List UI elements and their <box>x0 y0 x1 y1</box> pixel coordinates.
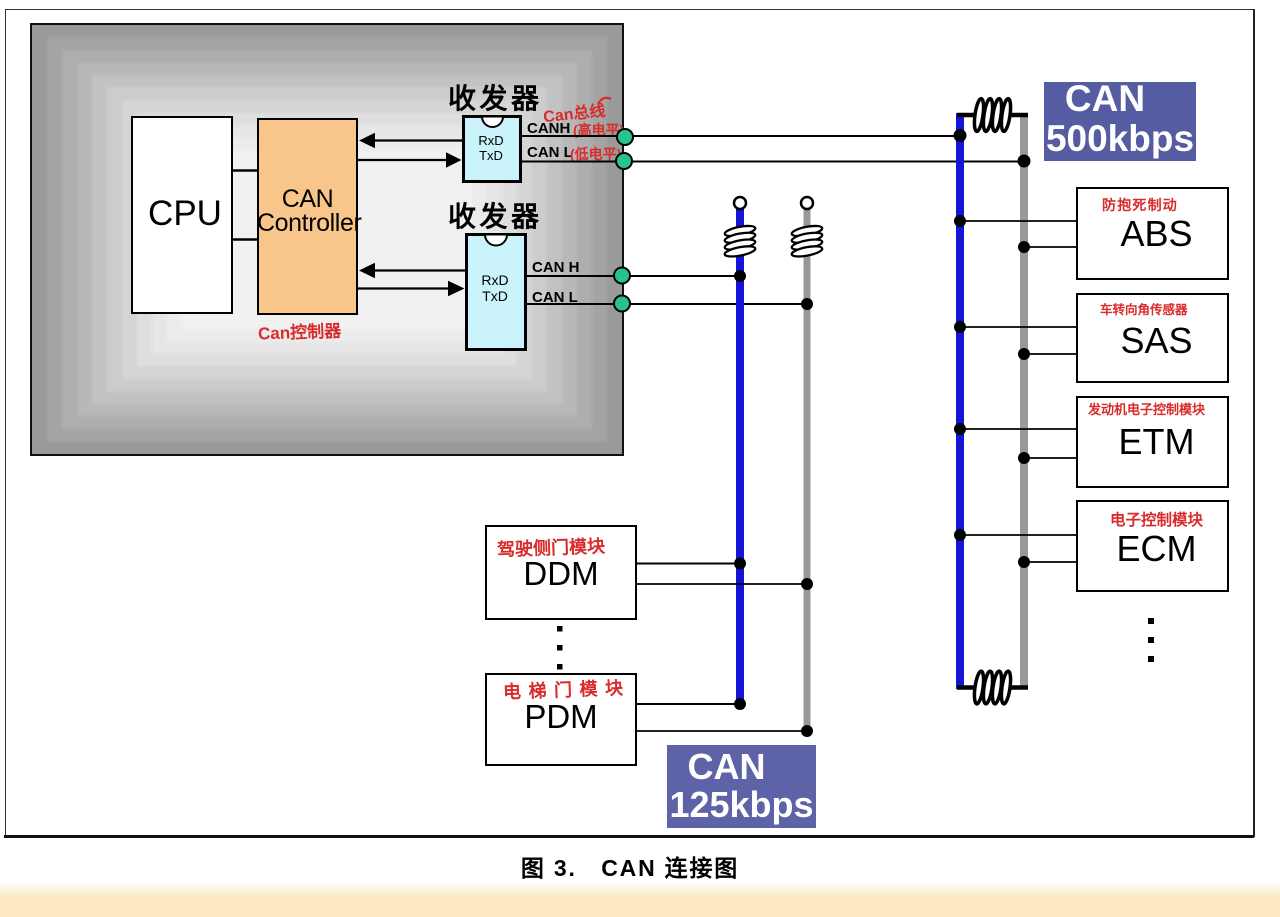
junction ABS-L <box>1018 241 1030 253</box>
terminal circle blue 125k <box>734 197 746 209</box>
label 电梯门模块 red <box>503 674 631 704</box>
resistor coil on gray 125k <box>791 224 823 259</box>
label Can控制器 (red) <box>258 317 342 345</box>
node CAN H stub U2 (green) <box>614 268 630 284</box>
node CAN L stub U2 (green) <box>614 296 630 312</box>
wire CAN H U2 to 125k bus <box>527 275 738 277</box>
resistor coil bottom 500k <box>973 671 1013 705</box>
junction SAS-H <box>954 321 966 333</box>
bus 500k CAN-H (blue) <box>956 113 964 689</box>
CAN controller box <box>257 118 358 315</box>
arrow controller<-U1 <box>359 133 462 148</box>
wire CPU-controller lower <box>233 238 258 241</box>
figure bottom rule <box>4 835 1254 838</box>
junction ABS-H <box>954 215 966 227</box>
CAN 500kbps label box <box>1044 82 1196 161</box>
junction U2L on gray 125k <box>801 298 813 310</box>
junction ECM-H <box>954 529 966 541</box>
bus 500k CAN-L (gray) <box>1020 113 1028 689</box>
wire SAS L <box>1026 353 1076 355</box>
ellipsis below ECM <box>1148 618 1154 662</box>
junction SAS-L <box>1018 348 1030 360</box>
wire DDM CANH <box>637 563 738 565</box>
resistor coil top 500k <box>973 98 1013 132</box>
wire ETM H <box>962 428 1076 430</box>
terminal circle gray 125k <box>801 197 813 209</box>
junction DDM-H <box>734 558 746 570</box>
arrow controller->U1 <box>358 152 462 167</box>
junction CANH on 500k <box>954 129 967 142</box>
caption 图3 CAN 连接图 <box>430 849 830 883</box>
junction CANL on 500k <box>1018 155 1031 168</box>
transceiver U2 box <box>465 233 527 351</box>
wire CANL U1 to 500k bus <box>522 161 1022 163</box>
label 驾驶侧门模块 red <box>497 532 606 562</box>
ETM box <box>1076 396 1229 488</box>
junction PDM-L <box>801 725 813 737</box>
wire DDM CANL <box>637 583 805 585</box>
node CANL stub (green) <box>616 153 632 169</box>
DDM box <box>485 525 637 620</box>
wire bottom termination 500k <box>957 685 1028 690</box>
SAS box <box>1076 293 1229 383</box>
ECM box <box>1076 500 1229 592</box>
label Can总线 red <box>542 97 606 127</box>
label Can总线 accent stroke <box>598 98 611 104</box>
wire SAS H <box>962 326 1076 328</box>
junction PDM-H <box>734 698 746 710</box>
wire CANH U1 to 500k bus <box>522 135 958 137</box>
label CANH U1 <box>527 120 570 137</box>
wire ABS H <box>962 220 1076 222</box>
label 发动机电子控制模块 red <box>1088 399 1205 418</box>
resistor coil on blue 125k <box>724 224 756 259</box>
junction U2H on blue 125k <box>734 270 746 282</box>
bus 125k CAN-L (gray) <box>804 209 811 735</box>
arrow controller<-U2 <box>359 263 465 278</box>
label 收发器 U1 <box>448 77 543 117</box>
CAN 125kbps label box <box>667 745 816 828</box>
junction ETM-L <box>1018 452 1030 464</box>
ellipsis DDM-PDM <box>557 626 563 670</box>
CPU box <box>131 116 233 314</box>
label 防抱死制动 red <box>1102 195 1178 215</box>
node CANH stub (green) <box>617 129 633 145</box>
ABS box <box>1076 187 1229 280</box>
notch U2 <box>485 235 507 246</box>
wire ETM L <box>1026 457 1076 459</box>
arrow controller->U2 <box>358 281 465 296</box>
notch U1 <box>482 117 503 128</box>
bus 125k CAN-H (blue) <box>736 209 744 709</box>
label 收发器 U2 <box>448 195 543 235</box>
wire CPU-controller upper <box>233 169 258 172</box>
label CAN L U1 <box>527 144 573 161</box>
wire PDM CANL <box>637 730 805 732</box>
wire ECM L <box>1026 561 1076 563</box>
transceiver U1 box <box>462 115 522 183</box>
label CAN L U2 <box>532 289 578 306</box>
label (低电平) red <box>570 144 621 164</box>
junction DDM-L <box>801 578 813 590</box>
wire PDM CANH <box>637 703 738 705</box>
label 车转向角传感器 red <box>1100 299 1188 318</box>
yellow strip <box>0 882 1280 917</box>
junction ETM-H <box>954 423 966 435</box>
wire ECM H <box>962 534 1076 536</box>
label (高电平) red <box>573 120 624 140</box>
wire ABS L <box>1026 246 1076 248</box>
junction ECM-L <box>1018 556 1030 568</box>
ECU gradient panel <box>30 23 624 456</box>
label 电子控制模块 red <box>1110 508 1203 530</box>
label CAN H U2 <box>532 259 580 276</box>
wire CAN L U2 to 125k bus <box>527 303 805 305</box>
PDM box <box>485 673 637 766</box>
wire top termination 500k <box>957 113 1028 118</box>
